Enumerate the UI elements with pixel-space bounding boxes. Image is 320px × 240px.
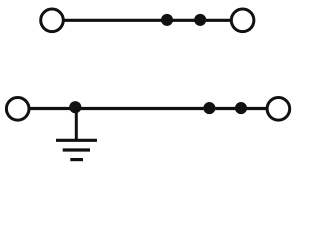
ground (earth symbol bar 1, widest) <box>56 139 97 142</box>
ground (earth symbol bar 3, shortest) <box>70 158 83 161</box>
wire (bottom level, from terminal 3 to terminal 4) <box>30 107 267 110</box>
junction dot (bottom wire, left contact) <box>203 102 215 114</box>
wire (top level, from terminal 1 to terminal 2) <box>64 19 231 22</box>
junction dot (top wire, right contact) <box>194 14 206 26</box>
junction dot (top wire, left contact) <box>161 14 173 26</box>
terminal circle 1 (top-left connection point) <box>41 9 64 32</box>
junction dot (bottom wire, ground tap node) <box>69 101 81 113</box>
terminal circle 4 (bottom-right connection point) <box>267 98 290 121</box>
wire (ground stem, vertical) <box>75 108 78 139</box>
terminal circle 2 (top-right connection point) <box>231 9 254 32</box>
terminal circle 3 (bottom-left connection point) <box>6 98 29 121</box>
junction dot (bottom wire, right contact) <box>235 102 247 114</box>
ground (earth symbol bar 2, middle) <box>63 148 90 151</box>
